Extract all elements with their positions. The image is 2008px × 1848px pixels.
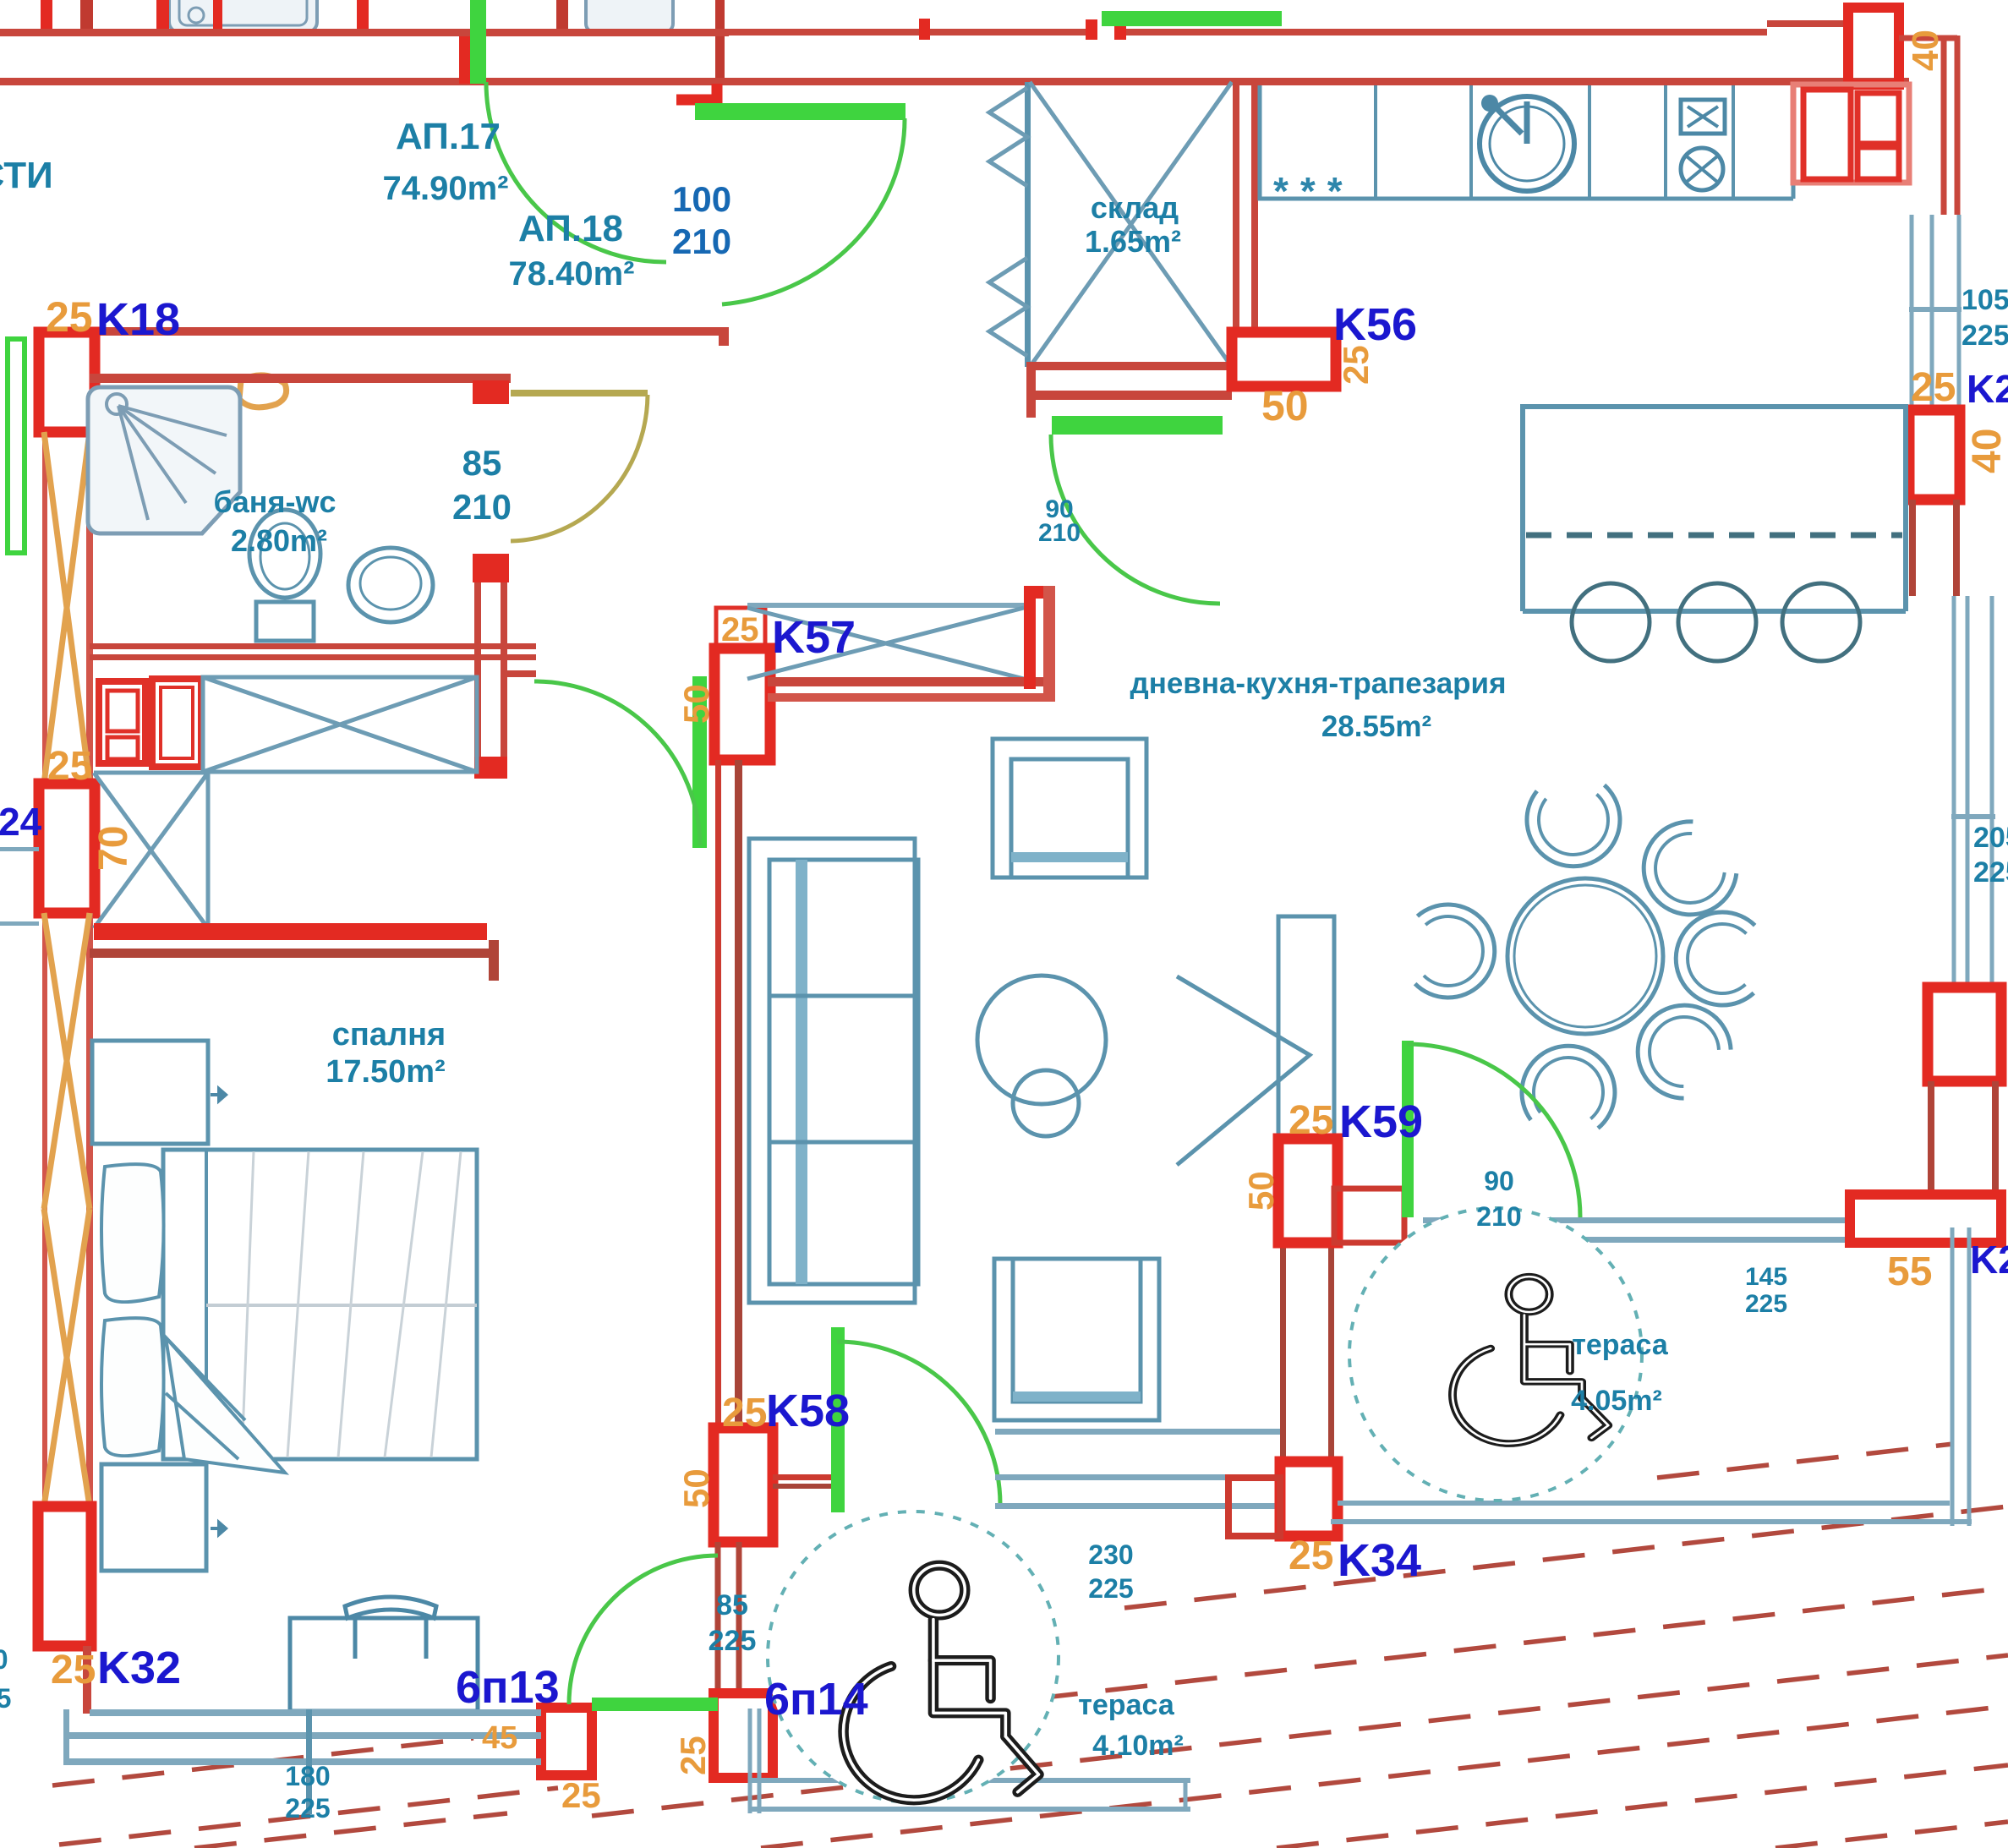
shower head fan: [118, 406, 227, 520]
svg-text:25: 25: [561, 1775, 601, 1815]
svg-text:105: 105: [1961, 284, 2008, 316]
bottom terrace right edge: [1184, 1780, 1188, 1809]
pillow 1: [101, 1164, 164, 1302]
bedroom top wall bright: [94, 923, 487, 940]
bedroom south window line2: [63, 1732, 541, 1739]
hatch row bottom-left: [52, 1738, 473, 1785]
entrance frame tick: [919, 19, 930, 40]
wheelchair symbol bottom: [844, 1566, 1039, 1801]
upper apt door green leaf: [470, 0, 486, 84]
wash basin inner: [360, 557, 421, 610]
entrance door jamb L: [676, 84, 717, 100]
red cabinet block A outer: [99, 681, 145, 763]
south window band line1: [995, 1429, 1283, 1435]
kitchen door green leaf: [1052, 416, 1223, 435]
door 6п13 green leaf: [592, 1698, 718, 1711]
tv chevron: [1177, 976, 1310, 1165]
counter outline: [1260, 85, 1793, 199]
bottom terrace bottom edge: [750, 1780, 1190, 1809]
svg-text:K18: K18: [96, 294, 180, 345]
svg-text:25: 25: [1911, 365, 1956, 410]
storage right wall: [1236, 82, 1255, 332]
svg-text:225: 225: [0, 1683, 11, 1714]
shower tray upper apartment: [169, 0, 317, 32]
terrace hatch row: [896, 1588, 2008, 1714]
shaft X brace 2: [44, 913, 90, 1506]
bathroom door (tan) arc: [511, 395, 648, 541]
svg-text:25: 25: [46, 293, 93, 341]
wheelchair symbol right: [1453, 1277, 1608, 1443]
storage bottom wall line2: [1036, 391, 1232, 400]
K34 stub left: [1228, 1478, 1280, 1536]
column K32: [38, 1506, 91, 1646]
entrance door swing arc: [722, 118, 905, 304]
top band upper line: [0, 24, 1848, 32]
toilet tank: [256, 602, 314, 641]
svg-text:40: 40: [1905, 30, 1946, 71]
svg-text:4.10m²: 4.10m²: [1092, 1730, 1184, 1762]
hall closet bottom wall line1: [768, 677, 1055, 686]
stool 1: [1572, 583, 1650, 661]
red cabinet block A inner top: [107, 691, 138, 731]
bathroom right wall upper jamb: [473, 380, 509, 404]
counter divider: [1374, 85, 1377, 199]
bathroom door (tan) leaf: [511, 390, 648, 396]
wheelchair circle bottom: [768, 1512, 1059, 1802]
armchair 2 seat bar: [1013, 1391, 1141, 1402]
dining chair S: [1518, 1041, 1620, 1129]
wardrobe X-box 2 (vertical): [94, 773, 208, 928]
bathroom right wall end cap: [474, 757, 507, 779]
wall below K32: [83, 1646, 91, 1714]
sofa inner seat: [769, 860, 918, 1284]
svg-text:50: 50: [1241, 1171, 1281, 1211]
fridge inner left: [1803, 90, 1851, 179]
wall K57 to K58 (left line): [715, 760, 721, 1428]
upper apt door arc: [486, 82, 666, 262]
K57 dim box: [716, 608, 765, 648]
nightstand 1 arrow: [211, 1089, 226, 1101]
svg-text:50: 50: [1261, 382, 1309, 429]
svg-text:25: 25: [1289, 1534, 1333, 1578]
door 6п13 jamb right: [714, 1693, 773, 1778]
wall below K2b: [1931, 1081, 1995, 1195]
svg-text:210: 210: [672, 221, 731, 261]
dining chair NE: [1625, 812, 1745, 933]
svg-text:К24: К24: [0, 800, 42, 844]
svg-text:АП.17: АП.17: [396, 116, 501, 157]
column K57: [714, 648, 770, 760]
column K56: [1232, 332, 1336, 386]
upper neighbours door green leaf: [1102, 11, 1282, 26]
desk chair: [345, 1597, 436, 1659]
column left mid: [39, 784, 95, 913]
svg-text:205: 205: [1973, 822, 2008, 854]
terrace hatch row: [1775, 1822, 2008, 1848]
K18 wall top (horizontal): [39, 327, 729, 336]
svg-text:K58: K58: [766, 1386, 850, 1436]
terrace hatch row: [592, 1655, 2008, 1816]
hob round burner: [1681, 148, 1723, 190]
nightstand 2: [101, 1464, 206, 1571]
wall K57 to K58 (right line): [735, 760, 742, 1428]
blanket fold line2: [166, 1337, 245, 1459]
svg-text:74.90m²: 74.90m²: [383, 170, 509, 207]
island dashed line: [1526, 533, 1902, 539]
column right K2a: [1909, 410, 1960, 500]
coffee table big: [977, 976, 1106, 1104]
upper apartment wall stub: [357, 0, 369, 35]
svg-text:85: 85: [462, 443, 502, 483]
nightstand 1: [92, 1041, 208, 1144]
svg-text:АП.18: АП.18: [518, 208, 623, 249]
sofa cushion divider 1: [769, 994, 918, 998]
door 6п13 arc: [569, 1555, 718, 1704]
svg-text:K57: K57: [772, 612, 856, 663]
armchair 1 outer: [993, 739, 1146, 878]
upper apartment wall stub: [213, 0, 222, 36]
svg-text:70: 70: [91, 826, 136, 871]
upper bath tub 2: [586, 0, 673, 32]
counter divider: [1469, 85, 1473, 199]
red cabinet block B inner: [161, 687, 193, 758]
armchair 2 inner: [1013, 1259, 1141, 1402]
green window left: [8, 339, 25, 553]
red cabinet block A inner bottom: [107, 737, 138, 759]
kitchen window glazing: [1912, 215, 1959, 410]
bathroom bottom wall line1: [90, 643, 536, 649]
column K59: [1278, 1139, 1338, 1243]
storage bottom wall step: [1026, 362, 1036, 418]
nightstand 2 arrow: [211, 1523, 226, 1534]
hob round cross: [1687, 156, 1717, 182]
counter divider: [1588, 85, 1591, 199]
svg-text:210: 210: [1038, 519, 1081, 547]
bedroom top wall dark line: [90, 949, 499, 958]
svg-text:180: 180: [285, 1761, 330, 1791]
door jamb top band: [459, 36, 473, 84]
upper door notch jamb: [1086, 19, 1097, 40]
south window band line3: [995, 1503, 1283, 1509]
hatch row bottom-left: [59, 1788, 558, 1845]
svg-text:дневна-кухня-трапезария: дневна-кухня-трапезария: [1130, 667, 1506, 700]
svg-text:25: 25: [1336, 345, 1376, 385]
hob square burner: [1681, 100, 1725, 134]
pillow 2: [101, 1318, 164, 1456]
sofa outer: [749, 839, 915, 1303]
shaft X brace 1: [44, 432, 90, 784]
armchair 1 seat bar: [1011, 852, 1128, 862]
K59 stub right: [1334, 1189, 1404, 1243]
wardrobe X-box 1: [203, 677, 477, 772]
svg-text:K2: K2: [1967, 367, 2008, 411]
bed outline: [163, 1150, 477, 1459]
kitchen island outline: [1523, 407, 1906, 611]
entrance door green leaf: [695, 103, 906, 120]
dining chair W: [1414, 904, 1496, 999]
upper apartment wall stub: [715, 0, 725, 84]
hall closet bottom wall line2: [768, 693, 1055, 702]
svg-text:50: 50: [676, 684, 716, 724]
svg-text:баня-wc: баня-wc: [213, 484, 336, 519]
svg-text:225: 225: [285, 1793, 330, 1823]
svg-text:склад: склад: [1091, 190, 1179, 225]
shower head: [107, 394, 127, 414]
K58 stub right line2: [773, 1484, 831, 1489]
hatch row bottom-left2: [194, 1813, 507, 1848]
desk: [290, 1618, 478, 1711]
fridge outer: [1793, 85, 1909, 183]
south window band line2: [995, 1474, 1283, 1480]
door handle mark orange: [239, 375, 287, 407]
svg-text:25: 25: [51, 1648, 96, 1692]
svg-text:90: 90: [1484, 1166, 1514, 1196]
shaft side line left 2: [42, 913, 47, 1506]
svg-text:25: 25: [47, 744, 92, 789]
svg-text:спалня: спалня: [332, 1017, 446, 1052]
hall closet corner wall top: [1024, 586, 1055, 599]
bathroom right wall lower jamb: [473, 554, 509, 582]
stool 2: [1678, 583, 1756, 661]
dining window glazing right: [1954, 596, 1992, 987]
K58 stub right line1: [773, 1474, 831, 1480]
terrace hatch row: [761, 1706, 2008, 1848]
counter divider: [1664, 85, 1667, 199]
wheelchair circle right: [1349, 1208, 1642, 1501]
bathroom right wall (double): [478, 582, 504, 778]
svg-text:90: 90: [0, 1644, 8, 1675]
kitchen faucet: [1490, 101, 1527, 144]
toilet bowl inner: [260, 523, 309, 589]
svg-text:45: 45: [482, 1720, 517, 1756]
sofa cushion divider 2: [769, 1140, 918, 1145]
dining chair N: [1524, 784, 1624, 870]
bedroom south window line1: [90, 1709, 541, 1716]
SE red wall block: [1850, 1195, 2001, 1243]
sofa armrest band: [796, 860, 807, 1284]
svg-text:145: 145: [1745, 1263, 1787, 1291]
storage left line: [1025, 82, 1031, 367]
coffee table small: [1013, 1070, 1079, 1136]
fridge inner right top: [1858, 93, 1899, 144]
dining window mullion: [1951, 814, 1995, 819]
armchair 2 outer: [994, 1259, 1159, 1420]
bathroom bottom wall line2: [90, 654, 536, 660]
door 6п14 arc: [837, 1342, 1000, 1505]
terrace hatch row: [1124, 1506, 2008, 1608]
bedroom south window left cap: [63, 1709, 69, 1765]
K18 wall end tick: [719, 327, 729, 346]
shaft side line right: [86, 432, 93, 784]
door K59 arc: [1407, 1044, 1580, 1217]
upper apartment wall stub: [41, 0, 52, 32]
svg-text:230: 230: [1088, 1539, 1133, 1570]
svg-text:55: 55: [1887, 1249, 1932, 1294]
svg-text:210: 210: [452, 487, 512, 527]
bedroom door arc: [534, 681, 700, 845]
storage hanger zigzag: [989, 88, 1027, 356]
svg-text:K34: K34: [1338, 1535, 1421, 1586]
kitchen window mullion: [1909, 307, 1961, 312]
toilet bowl: [249, 510, 320, 598]
door 6п13 jamb left: [541, 1708, 592, 1775]
svg-text:K59: K59: [1339, 1096, 1423, 1147]
hall stub line: [507, 670, 536, 677]
svg-text:25: 25: [1289, 1098, 1333, 1143]
door K59 green leaf: [1402, 1041, 1414, 1217]
shower tray: [88, 387, 240, 533]
svg-text:50: 50: [676, 1468, 716, 1508]
upper door notch jamb: [1114, 19, 1126, 40]
shaft side line left: [42, 432, 47, 784]
svg-text:1.65m²: 1.65m²: [1085, 224, 1181, 259]
dining table inner: [1514, 885, 1656, 1027]
svg-text:40: 40: [1965, 429, 2008, 473]
column K18: [39, 332, 95, 432]
svg-text:85: 85: [716, 1589, 748, 1621]
svg-text:тераса: тераса: [1078, 1689, 1175, 1721]
kitchen faucet head: [1481, 95, 1498, 112]
tv partition: [1278, 916, 1334, 1139]
bathroom top wall: [90, 374, 511, 383]
bedroom top wall hook: [489, 940, 499, 981]
svg-text:28.55m²: 28.55m²: [1321, 710, 1431, 743]
hob square X: [1688, 107, 1718, 127]
dining chair E: [1675, 911, 1755, 1006]
svg-text:210: 210: [1476, 1201, 1521, 1232]
wall below K2a: [1912, 500, 1956, 596]
hall closet X-box: [747, 608, 1024, 679]
upper apartment wall stub: [156, 0, 169, 36]
svg-text:25: 25: [722, 1391, 767, 1435]
hall closet corner wall vertical: [1024, 588, 1036, 689]
bedroom window mullion: [306, 1709, 312, 1814]
storage X: [1030, 82, 1232, 367]
svg-text:2.80m²: 2.80m²: [231, 523, 327, 558]
kitchen door arc: [1051, 435, 1220, 604]
door 6п14 green leaf: [831, 1327, 845, 1512]
wash basin: [348, 548, 433, 622]
svg-text:***: ***: [1273, 169, 1354, 213]
svg-text:25: 25: [721, 611, 759, 648]
kitchen sink inner: [1490, 107, 1564, 181]
svg-text:K2: K2: [1970, 1238, 2008, 1282]
wall below K59 line1: [1280, 1243, 1286, 1464]
svg-text:6п14: 6п14: [764, 1674, 868, 1725]
svg-text:тераса: тераса: [1572, 1329, 1669, 1361]
svg-text:225: 225: [709, 1625, 757, 1657]
column K58: [714, 1428, 773, 1542]
dining chair SE: [1618, 986, 1739, 1107]
bed middle line: [206, 1304, 477, 1307]
hall closet corner wall outer: [1043, 586, 1055, 702]
column right K2b: [1928, 987, 2001, 1081]
balcony tick left b: [0, 921, 39, 926]
shaft side line right 2: [86, 913, 93, 1506]
bedroom door green leaf: [692, 676, 707, 848]
svg-text:225: 225: [1973, 856, 2008, 888]
bed sheet creases: [242, 1151, 461, 1457]
fridge inner right bottom: [1858, 147, 1899, 179]
svg-text:4.05m²: 4.05m²: [1571, 1385, 1662, 1417]
kitchen sink outer: [1480, 96, 1574, 191]
blanket fold: [166, 1337, 285, 1473]
upper apartment wall stub: [80, 0, 93, 32]
top band lower line: [0, 78, 1909, 85]
upper apartment inner wall line: [0, 30, 729, 36]
svg-text:25: 25: [673, 1736, 713, 1775]
svg-text:17.50m²: 17.50m²: [326, 1054, 446, 1090]
svg-text:K32: K32: [97, 1643, 181, 1693]
column K34: [1280, 1462, 1338, 1536]
svg-text:225: 225: [1961, 320, 2008, 352]
svg-text:225: 225: [1745, 1290, 1787, 1318]
bed headboard line: [205, 1150, 208, 1459]
armchair 1 inner: [1011, 759, 1128, 878]
island bottom line: [1523, 609, 1906, 614]
svg-text:225: 225: [1088, 1573, 1133, 1604]
bottom terrace left edge: [750, 1709, 759, 1813]
svg-text:100: 100: [672, 179, 731, 219]
terrace hatch row: [1277, 1765, 2008, 1848]
right terrace bottom edge: [1331, 1503, 1972, 1522]
stool 3: [1782, 583, 1860, 661]
upper apartment wall stub: [556, 0, 568, 32]
dining table outer: [1507, 878, 1663, 1034]
counter divider: [1732, 85, 1735, 199]
top-right corner wall: [1899, 36, 1957, 215]
wall below K59 line2: [1328, 1243, 1334, 1464]
bedroom south window line3: [63, 1758, 541, 1765]
svg-text:ЧАСТИ: ЧАСТИ: [0, 155, 53, 196]
right terrace right edge: [1952, 1227, 1969, 1526]
svg-text:78.40m²: 78.40m²: [509, 255, 635, 293]
terrace hatch row: [1657, 1444, 1953, 1478]
closet top wall over X-box: [747, 603, 1030, 608]
svg-text:6п13: 6п13: [456, 1662, 560, 1713]
top-right corner column: [1848, 8, 1899, 85]
wall K58 to jamb: [718, 1542, 739, 1693]
red cabinet block B: [152, 679, 201, 767]
SE window band line2: [1423, 1237, 1850, 1243]
balcony tick left a: [0, 847, 39, 851]
SE window band line1: [1423, 1217, 1850, 1223]
svg-text:K56: K56: [1333, 299, 1417, 350]
storage bottom wall line1: [1030, 362, 1232, 370]
